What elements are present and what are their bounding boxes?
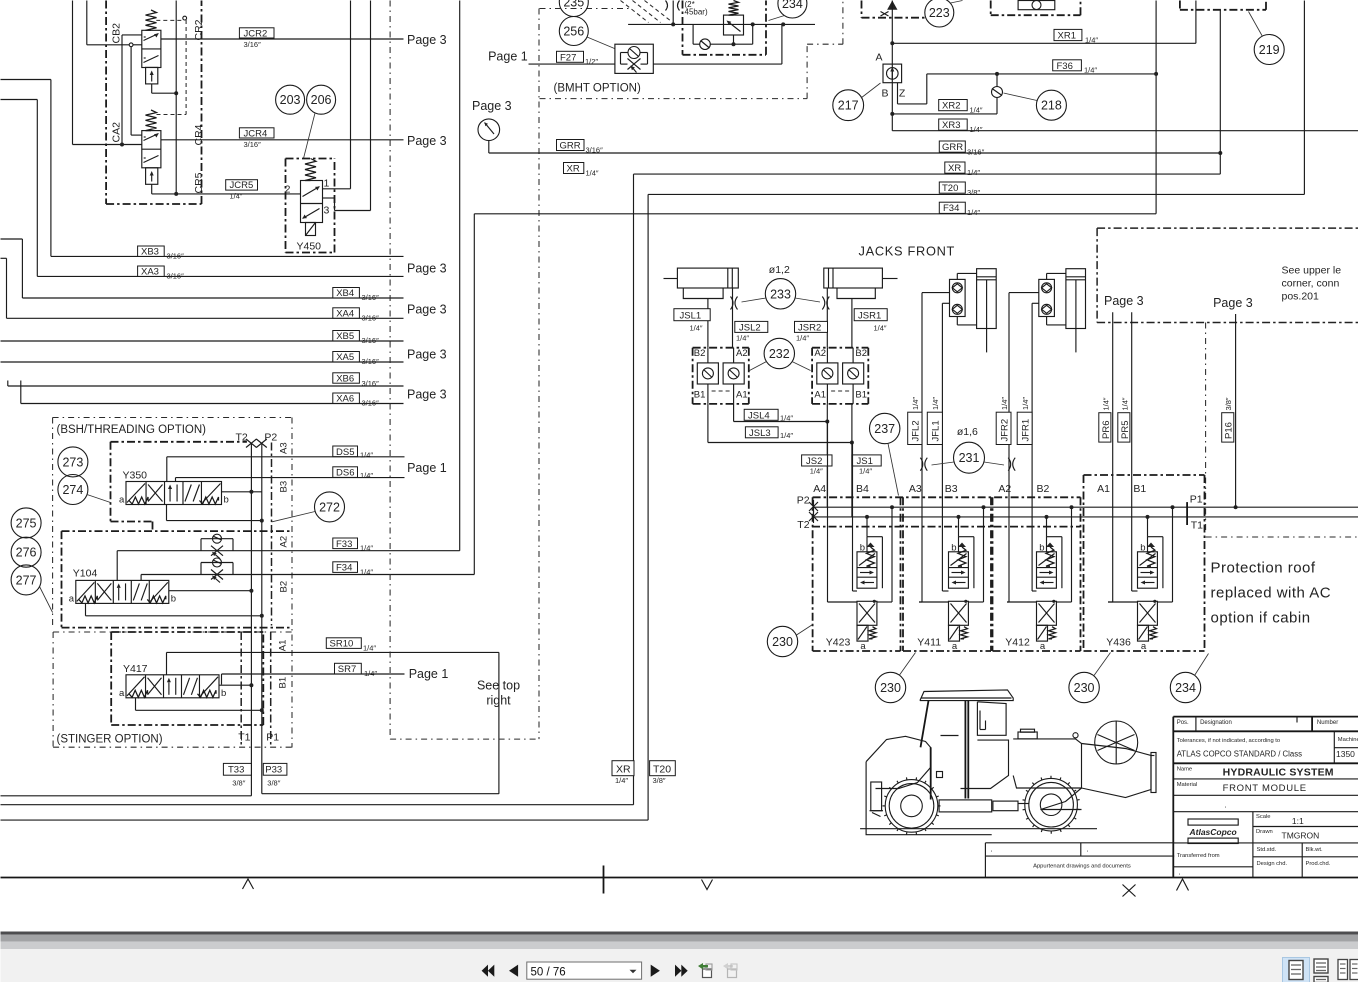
svg-text:F34: F34 xyxy=(336,563,352,574)
svg-text:F27: F27 xyxy=(560,52,576,63)
label box P16 rot xyxy=(1222,413,1234,442)
wire: CB2 link valve1 top port xyxy=(122,34,142,36)
svg-text:F33: F33 xyxy=(336,539,352,550)
left jack cylinder xyxy=(677,268,738,288)
valve section Y423 A line xyxy=(827,422,829,603)
svg-text:A2: A2 xyxy=(998,483,1011,495)
svg-text:JFL2: JFL2 xyxy=(911,420,922,441)
wire XB3 xyxy=(1,79,51,81)
leader 217 xyxy=(861,83,881,98)
svg-text:219: 219 xyxy=(1259,43,1280,57)
label box JFL1 rot xyxy=(927,412,942,444)
machine: base frame xyxy=(866,762,992,835)
leader 234 xyxy=(1195,654,1209,676)
svg-text:Y450: Y450 xyxy=(297,241,322,253)
wire T1 down to bottom rail xyxy=(250,764,252,796)
lower body xyxy=(1138,601,1158,625)
check-throttle (F34) xyxy=(200,563,202,575)
svg-text:275: 275 xyxy=(16,516,37,530)
spring Y450 xyxy=(305,159,316,181)
riser F34 xyxy=(140,575,142,581)
svg-text:JCR4: JCR4 xyxy=(244,128,268,139)
solenoid CB2 valve xyxy=(146,67,158,84)
wire PR6 xyxy=(1112,312,1114,602)
long dash-dot divider x538 xyxy=(538,9,540,740)
wire XB5 xyxy=(1,340,404,342)
svg-text:b: b xyxy=(1140,543,1145,554)
wire DS5 xyxy=(167,456,405,458)
svg-text:45bar): 45bar) xyxy=(685,8,708,17)
valve Y411 body xyxy=(949,552,969,588)
T feed xyxy=(1146,515,1150,519)
svg-text:Protection roof: Protection roof xyxy=(1211,560,1316,577)
valve section Y436 A line xyxy=(1107,601,1109,603)
wire B4 feed down xyxy=(851,404,853,517)
leader 272 xyxy=(272,512,316,522)
gauge xyxy=(478,119,500,141)
svg-text:a: a xyxy=(1141,641,1147,652)
svg-text:a: a xyxy=(952,641,958,652)
svg-text:274: 274 xyxy=(62,483,83,497)
svg-text:(STINGER OPTION): (STINGER OPTION) xyxy=(57,734,163,746)
pilot line CR2 (dashed) xyxy=(183,16,187,20)
svg-text:DS5: DS5 xyxy=(336,447,354,458)
svg-text:See upper le: See upper le xyxy=(1282,265,1342,277)
svg-text:1/4″: 1/4″ xyxy=(874,324,887,333)
svg-text:Machined: Machined xyxy=(1338,737,1358,743)
wire XA4 xyxy=(1,257,7,259)
svg-text:Scale: Scale xyxy=(1256,814,1271,820)
balloon 276 xyxy=(11,537,41,567)
plug X on P rail xyxy=(809,502,818,511)
lower body xyxy=(949,601,969,625)
border tick x603 xyxy=(603,866,605,894)
svg-text:A1: A1 xyxy=(278,640,289,652)
wire SR7 xyxy=(222,673,405,675)
label box SR7 xyxy=(335,663,362,674)
T feed xyxy=(1045,515,1049,519)
section box xyxy=(992,497,994,651)
T line vertical xyxy=(250,443,252,764)
svg-text:Page 3: Page 3 xyxy=(1213,296,1253,310)
svg-text:JFL1: JFL1 xyxy=(931,420,942,441)
svg-text:Y417: Y417 xyxy=(123,663,148,675)
svg-text:a: a xyxy=(69,593,75,604)
riser DS6 xyxy=(175,478,177,482)
right option dash-dot boundary xyxy=(1205,323,1207,533)
svg-text:3/16″: 3/16″ xyxy=(586,146,604,155)
svg-text:Std.std.: Std.std. xyxy=(1257,847,1277,853)
wire F27 xyxy=(529,63,615,65)
svg-text:JS1: JS1 xyxy=(857,456,873,467)
wire JCR5 xyxy=(152,193,301,195)
label box JCR5 xyxy=(226,180,258,190)
svg-text:203: 203 xyxy=(280,93,301,107)
bottom rail XR loop xyxy=(1,819,649,821)
wire JCR4 to Page 3 xyxy=(161,139,404,141)
svg-text:1/4″: 1/4″ xyxy=(911,397,920,410)
balloon 203 xyxy=(276,85,305,114)
svg-text:Page 3: Page 3 xyxy=(407,33,447,47)
machine: rear wheel xyxy=(1025,778,1078,831)
machine: windshield xyxy=(977,702,1006,736)
wire XR xyxy=(634,173,1221,175)
lock valve assembly right xyxy=(812,347,868,349)
border mark caret2 xyxy=(1177,879,1189,891)
spring CB2 valve xyxy=(146,10,157,30)
balloon 256 xyxy=(559,17,588,46)
manifold inner dash-dot xyxy=(812,526,1081,528)
leader 232 left xyxy=(750,362,767,371)
label box F27 xyxy=(557,51,584,62)
svg-text:T20: T20 xyxy=(942,183,958,194)
svg-text:3/16″: 3/16″ xyxy=(362,336,380,345)
label box XB3 xyxy=(138,246,165,256)
svg-text:XB4: XB4 xyxy=(336,288,354,299)
bottom rail T loop xyxy=(1,804,634,806)
svg-text:JSL4: JSL4 xyxy=(748,410,770,421)
dashed cut diagonals xyxy=(621,1,649,23)
svg-text:JS2: JS2 xyxy=(806,456,822,467)
svg-text:3/16″: 3/16″ xyxy=(362,399,380,408)
svg-text:B1: B1 xyxy=(278,677,289,689)
wire T20 xyxy=(648,193,1304,195)
check-throttle (F33) xyxy=(200,539,202,551)
leader 219 xyxy=(1249,12,1263,37)
svg-text:3/16″: 3/16″ xyxy=(362,379,380,388)
svg-text:3: 3 xyxy=(324,205,330,217)
bypass check loop xyxy=(692,24,694,44)
svg-text:P1: P1 xyxy=(266,732,279,744)
component F27 throttle-check box xyxy=(615,44,653,73)
svg-text:pos.201: pos.201 xyxy=(1282,291,1320,303)
machine: small cap xyxy=(1073,733,1078,738)
svg-text:1/4″: 1/4″ xyxy=(360,567,373,576)
layout single page icon (active) xyxy=(1283,958,1310,982)
svg-text:3/8″: 3/8″ xyxy=(653,776,666,785)
svg-text:XA3: XA3 xyxy=(141,267,159,278)
svg-text:P33: P33 xyxy=(265,765,282,776)
svg-text:F36: F36 xyxy=(1057,61,1073,72)
svg-text:Page 3: Page 3 xyxy=(407,262,447,276)
svg-text:1/4″: 1/4″ xyxy=(360,471,373,480)
T feed xyxy=(957,515,961,519)
svg-text:B2: B2 xyxy=(694,348,706,359)
bottom rail P loop xyxy=(262,793,499,795)
svg-text:T2: T2 xyxy=(236,432,248,444)
svg-text:3/8″: 3/8″ xyxy=(1224,397,1233,410)
svg-text:PR5: PR5 xyxy=(1120,421,1131,439)
machine: rear cone xyxy=(1082,744,1152,798)
svg-text:Page 1: Page 1 xyxy=(488,50,528,64)
label box JSL4 xyxy=(744,409,778,420)
wire F34 cross xyxy=(474,213,1156,215)
label box PR5 rot xyxy=(1118,413,1130,442)
valve Y423 body xyxy=(857,552,877,588)
svg-text:206: 206 xyxy=(311,93,332,107)
svg-text:1/4″: 1/4″ xyxy=(931,397,940,410)
valve section Y423 B line xyxy=(852,443,854,592)
component fragment xyxy=(1018,1,1055,10)
title block frame xyxy=(1173,716,1358,718)
svg-text:Pos.: Pos. xyxy=(1177,720,1189,726)
wire: junction to CA2 valve top port xyxy=(130,47,132,135)
svg-text:217: 217 xyxy=(838,99,859,113)
wire GRR xyxy=(557,152,1221,154)
relief valve (2*45bar) xyxy=(729,1,739,16)
P feed xyxy=(1171,505,1175,509)
svg-text:(BMHT OPTION): (BMHT OPTION) xyxy=(554,83,641,95)
leader 233 left xyxy=(742,298,767,302)
leader 231 right xyxy=(984,462,1004,465)
hose break JFL xyxy=(920,458,923,471)
svg-text:XB5: XB5 xyxy=(336,331,354,342)
valve Y450 body xyxy=(301,181,323,223)
check valve 218 xyxy=(996,74,998,87)
valve Y436 body xyxy=(1138,552,1158,588)
inner assembly dash-dot box xyxy=(682,1,684,55)
page number box xyxy=(527,962,642,979)
lower body xyxy=(1037,601,1057,625)
feed stub xyxy=(672,1,674,25)
leader 256 to F27 component xyxy=(587,37,615,49)
svg-text:PR6: PR6 xyxy=(1101,421,1112,439)
node: open junction on CB2 line xyxy=(129,43,133,47)
leader 233 right xyxy=(795,298,820,302)
border mark vee xyxy=(702,880,713,890)
label box JCR2 xyxy=(239,28,274,38)
svg-text:1350: 1350 xyxy=(1336,749,1355,759)
svg-text:230: 230 xyxy=(880,681,901,695)
svg-text:A3: A3 xyxy=(909,483,922,495)
label box SR10 xyxy=(326,638,361,649)
inner dash-dot box Y104 xyxy=(62,530,293,532)
label box XR3 xyxy=(939,119,968,130)
machine: tank body xyxy=(1013,739,1081,788)
internal CR2 rail xyxy=(175,1,177,194)
solenoid a xyxy=(1138,625,1149,641)
wire P1 down to bottom rail xyxy=(261,764,263,794)
top mid dash-dot box xyxy=(990,1,992,16)
wire right jack B2 drop xyxy=(851,299,853,348)
stub below Y450 xyxy=(306,223,316,236)
lower body xyxy=(857,601,877,625)
leader 277 xyxy=(40,587,53,613)
machine: front wheel xyxy=(885,780,938,833)
solenoid CA2 valve xyxy=(146,168,158,185)
svg-text:276: 276 xyxy=(16,546,37,560)
svg-text:Page 3: Page 3 xyxy=(407,134,447,148)
svg-text:230: 230 xyxy=(1074,681,1095,695)
svg-text:b: b xyxy=(224,495,229,506)
svg-text:option if cabin: option if cabin xyxy=(1211,610,1311,627)
sheet bottom border xyxy=(1,877,1358,879)
label box XR2 xyxy=(939,100,968,111)
svg-text:F34: F34 xyxy=(943,203,959,214)
svg-text:Material: Material xyxy=(1177,782,1198,788)
A line vertical xyxy=(891,1,893,131)
label box XA6 xyxy=(333,393,360,403)
wire JCR2 to Page 3 xyxy=(161,38,404,40)
spring b xyxy=(958,547,966,566)
spring CA2 valve xyxy=(146,110,157,131)
svg-text:JFR2: JFR2 xyxy=(999,419,1010,442)
balloon 230 a xyxy=(767,626,797,656)
svg-text:ø1,2: ø1,2 xyxy=(769,264,790,276)
machine: cab lower xyxy=(961,740,1009,788)
svg-text:1/4″: 1/4″ xyxy=(967,208,980,217)
svg-text:1: 1 xyxy=(324,178,330,190)
dash-dot enclosure box CB2/CA2 block xyxy=(105,1,107,205)
solenoid a xyxy=(857,625,868,641)
svg-text:Appurtenant drawings and docum: Appurtenant drawings and documents xyxy=(1033,864,1131,870)
svg-text:B3: B3 xyxy=(279,481,290,493)
section box xyxy=(902,497,904,651)
label box XR right xyxy=(945,162,965,173)
wire XA5 xyxy=(1,361,404,363)
balloon 272 xyxy=(315,492,345,522)
appurtenant table xyxy=(985,842,1174,844)
P1-T1 right stub xyxy=(1186,502,1188,525)
leader 230c xyxy=(1094,653,1111,676)
wire Y450 port3 riser xyxy=(323,197,335,199)
dash-dot bottom edge see-top box xyxy=(390,738,539,740)
svg-text:3/16″: 3/16″ xyxy=(362,313,380,322)
label box JFL2 rot xyxy=(908,412,922,444)
svg-text:a: a xyxy=(119,495,125,506)
check arrow symbol xyxy=(887,1,897,10)
svg-text:50 / 76: 50 / 76 xyxy=(531,967,566,979)
long dashed divider x390 xyxy=(389,1,391,740)
svg-text:a: a xyxy=(1040,641,1046,652)
machine: cab roof xyxy=(920,690,1013,701)
wire A4 feed down xyxy=(826,404,828,507)
svg-text:1/4″: 1/4″ xyxy=(615,776,628,785)
svg-text:Y411: Y411 xyxy=(917,637,941,649)
svg-text:1/4″: 1/4″ xyxy=(796,334,809,343)
label box XR bottom xyxy=(612,761,634,776)
machine: mid frame boxes xyxy=(939,800,992,812)
balloon 273 xyxy=(58,447,88,477)
svg-text:A3: A3 xyxy=(279,442,290,454)
svg-text:1/4″: 1/4″ xyxy=(1021,397,1030,410)
lock valve assembly left xyxy=(693,347,749,349)
label box JSR2 xyxy=(795,321,828,332)
valve section Y411 B line xyxy=(943,590,945,592)
section4 box top xyxy=(1084,474,1205,476)
manifold top dash-dot xyxy=(813,496,1081,498)
svg-text:Page 1: Page 1 xyxy=(409,667,449,681)
svg-text:XR: XR xyxy=(616,764,631,776)
svg-text:3/16″: 3/16″ xyxy=(967,148,985,157)
svg-text:1/4″: 1/4″ xyxy=(1000,397,1009,410)
svg-text:Design chd.: Design chd. xyxy=(1257,861,1288,867)
balloon 275 xyxy=(11,508,41,538)
balloon 235 (cut top) xyxy=(559,0,588,17)
svg-text:P2: P2 xyxy=(264,432,277,444)
svg-text:237: 237 xyxy=(874,422,895,436)
nav last button xyxy=(675,965,681,977)
leader 206 to Y450 xyxy=(304,113,316,159)
wire Y450 port1 riser xyxy=(323,188,351,190)
label box T20 right xyxy=(939,182,965,193)
P feed xyxy=(1070,505,1074,509)
wire Y104 bottom loop xyxy=(85,604,87,616)
valve section Y436 B line xyxy=(1132,590,1134,592)
svg-text:replaced with AC: replaced with AC xyxy=(1211,585,1332,602)
label box XR1 xyxy=(1054,29,1082,40)
svg-text:Page 3: Page 3 xyxy=(407,388,447,402)
svg-text:1:1: 1:1 xyxy=(1292,816,1304,826)
svg-text:256: 256 xyxy=(563,25,584,39)
wire Y350 right port to P2 xyxy=(222,491,262,493)
svg-text:b: b xyxy=(951,543,956,554)
svg-text:1/4″: 1/4″ xyxy=(967,168,980,177)
svg-text:CR2: CR2 xyxy=(193,19,205,40)
wire JFL2 xyxy=(922,292,950,294)
riser SR10 xyxy=(166,652,168,674)
svg-text:JCR2: JCR2 xyxy=(244,28,268,39)
valve section Y412 B line xyxy=(1031,590,1033,592)
label box JSL2 xyxy=(735,321,768,332)
svg-text:JCR5: JCR5 xyxy=(230,180,254,191)
svg-text:273: 273 xyxy=(62,455,83,469)
svg-text:right: right xyxy=(486,694,511,708)
svg-text:JSL2: JSL2 xyxy=(739,323,761,334)
valve Y417 xyxy=(126,675,219,698)
wire XB6 xyxy=(7,381,9,387)
wire XB4 xyxy=(1,238,23,240)
svg-text:(BSH/THREADING OPTION): (BSH/THREADING OPTION) xyxy=(57,424,207,436)
svg-text:223: 223 xyxy=(929,6,950,20)
svg-text:B2: B2 xyxy=(1037,483,1050,495)
svg-text:1/4″: 1/4″ xyxy=(736,334,749,343)
wire: valve top pilot stubs xyxy=(866,537,868,552)
svg-text:2: 2 xyxy=(285,184,291,196)
view-back icon xyxy=(703,969,712,978)
svg-text:3/16″: 3/16″ xyxy=(167,272,185,281)
balloon 217 xyxy=(833,90,864,121)
leader 223 xyxy=(951,1,963,4)
svg-text:3/8″: 3/8″ xyxy=(967,188,980,197)
svg-text:Tolerances, if not indicated,: Tolerances, if not indicated, according … xyxy=(1177,738,1280,744)
leader 232 right xyxy=(792,362,811,371)
svg-text:B3: B3 xyxy=(945,483,958,495)
plugged port x T2 xyxy=(246,439,257,448)
svg-text:B: B xyxy=(881,88,888,100)
svg-text:Y412: Y412 xyxy=(1005,637,1030,649)
balloon 237 xyxy=(870,413,900,443)
svg-text:B1: B1 xyxy=(855,390,867,401)
section box xyxy=(812,497,814,651)
svg-text:Y350: Y350 xyxy=(123,470,148,482)
wire F34 left xyxy=(141,574,474,576)
svg-text:3/16″: 3/16″ xyxy=(167,252,185,261)
svg-text:.: . xyxy=(1224,801,1226,810)
plugged port x P2 xyxy=(256,439,267,448)
wire: CB2 feed upper xyxy=(86,1,88,45)
wire XR1 xyxy=(892,42,1196,44)
valve Y350 xyxy=(126,482,222,505)
wire F33 xyxy=(117,550,460,552)
svg-text:A2: A2 xyxy=(736,348,748,359)
wire Y350 bottom loop xyxy=(166,505,168,521)
wire P16 xyxy=(1235,314,1237,507)
svg-text:272: 272 xyxy=(319,500,340,514)
svg-text:B1: B1 xyxy=(694,390,706,401)
svg-text:A1: A1 xyxy=(814,390,826,401)
svg-text:T20: T20 xyxy=(653,764,671,776)
